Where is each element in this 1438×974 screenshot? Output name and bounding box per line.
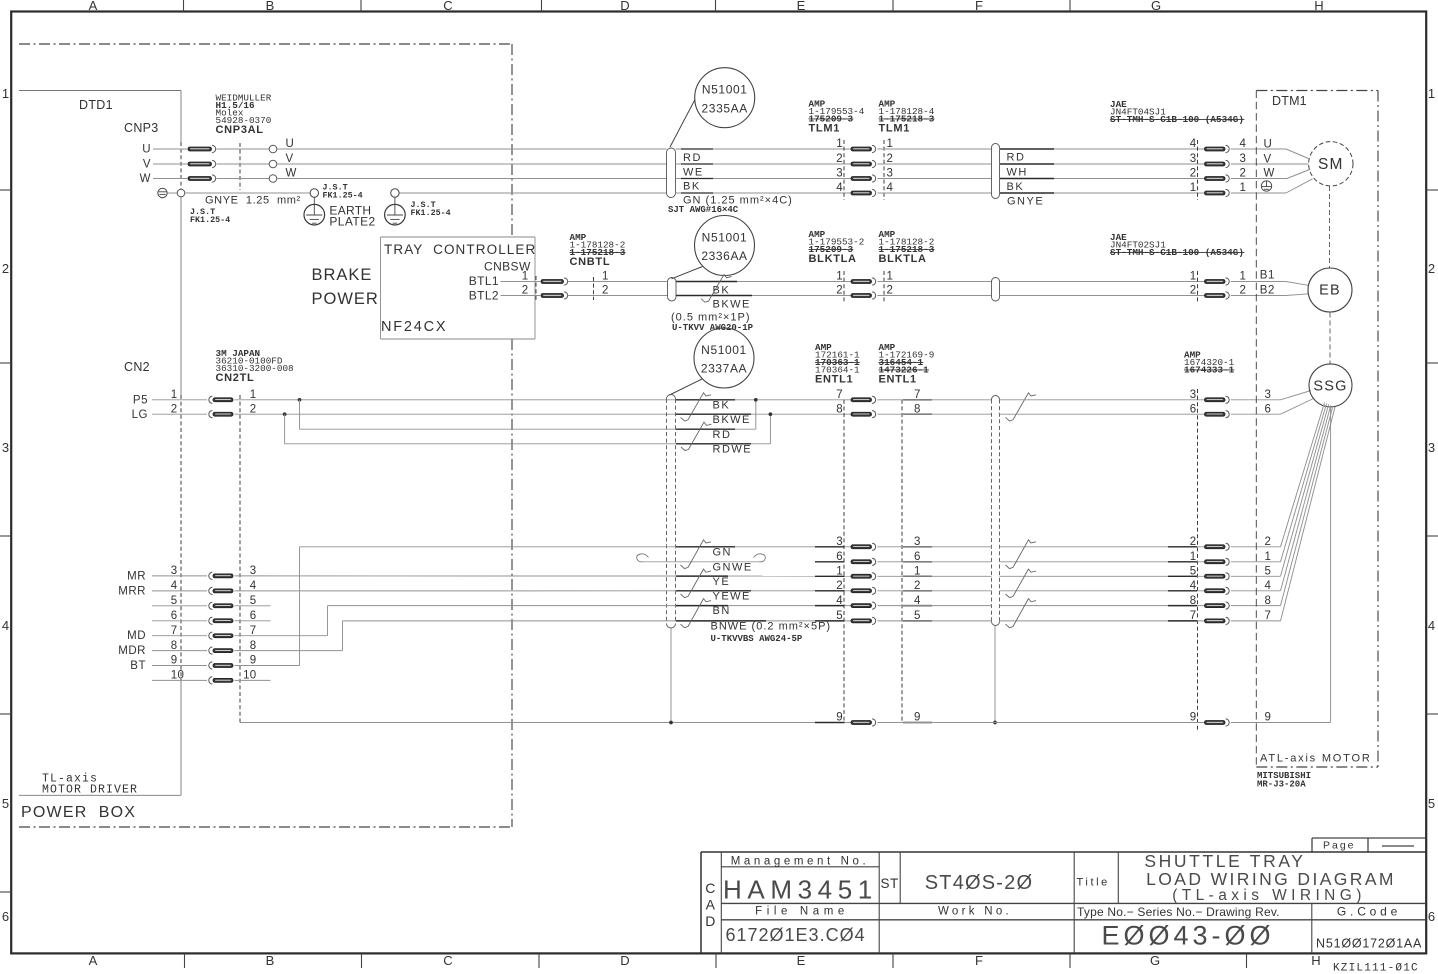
GNYE earth wire bbox=[177, 189, 666, 206]
wires to encoder connector (pins 3 6) bbox=[1000, 400, 1205, 414]
color change marker (encoder power pair, right) bbox=[1006, 393, 1037, 421]
brake terminal labels B1 B2 bbox=[1260, 270, 1275, 297]
cable sheath (encoder cable, right) bbox=[992, 396, 1000, 626]
svg-text:6: 6 bbox=[171, 610, 178, 622]
svg-text:ENTL1: ENTL1 bbox=[815, 374, 853, 386]
svg-text:4: 4 bbox=[836, 595, 843, 607]
svg-text:BK: BK bbox=[683, 181, 701, 193]
svg-text:1: 1 bbox=[1428, 86, 1435, 101]
wire P5 bbox=[133, 389, 851, 407]
POWER BOX label bbox=[21, 804, 136, 821]
color change markers (encoder power pairs) bbox=[681, 393, 712, 451]
TL-axis MOTOR DRIVER label bbox=[42, 773, 138, 797]
svg-text:BKWE: BKWE bbox=[713, 299, 751, 311]
electromagnetic brake EB bbox=[1308, 268, 1352, 312]
svg-text:G: G bbox=[1150, 953, 1160, 968]
wire MDR (to BNWE) bbox=[235, 621, 852, 651]
svg-text:GNYE 1.25 mm²: GNYE 1.25 mm² bbox=[205, 195, 301, 207]
svg-text:GNYE: GNYE bbox=[1007, 196, 1044, 208]
encoder signal fan into SSG bbox=[1231, 403, 1335, 621]
ST field bbox=[881, 876, 899, 891]
svg-text:B: B bbox=[266, 0, 275, 13]
connector JN4FT02SJ1 (brake) bbox=[1190, 271, 1246, 303]
svg-text:DTD1: DTD1 bbox=[79, 98, 113, 112]
svg-text:MR-J3-20A: MR-J3-20A bbox=[1257, 780, 1306, 790]
wires into encoder SSG (pins 3 6) bbox=[1231, 391, 1314, 415]
connector TLM1 mating pair bbox=[836, 138, 893, 200]
svg-text:F: F bbox=[975, 953, 983, 968]
connector CNBTL part-number stack bbox=[570, 232, 626, 268]
svg-text:9: 9 bbox=[1190, 712, 1197, 724]
cable GN label bbox=[668, 195, 793, 216]
DTM1 label bbox=[1272, 94, 1307, 108]
svg-text:2: 2 bbox=[1240, 285, 1247, 297]
svg-text:2: 2 bbox=[522, 285, 529, 297]
svg-text:(TL-axis WIRING): (TL-axis WIRING) bbox=[1172, 887, 1366, 904]
svg-text:2337AA: 2337AA bbox=[701, 362, 747, 376]
wire MR (to YE) bbox=[235, 575, 852, 577]
svg-text:MR: MR bbox=[127, 570, 146, 582]
svg-text:FK1.25-4: FK1.25-4 bbox=[411, 208, 451, 218]
svg-text:1: 1 bbox=[1190, 182, 1197, 194]
NF24CX label bbox=[381, 319, 447, 335]
color change markers (encoder signal pairs, left) bbox=[681, 540, 712, 628]
motor phase labels U V W and earth pin bbox=[1261, 139, 1275, 192]
svg-text:4: 4 bbox=[171, 580, 178, 592]
svg-text:ST4ØS-2Ø: ST4ØS-2Ø bbox=[925, 872, 1034, 894]
svg-text:C: C bbox=[443, 953, 452, 968]
svg-text:B2: B2 bbox=[1260, 285, 1275, 297]
svg-text:SJT AWG#16×4C: SJT AWG#16×4C bbox=[668, 205, 739, 215]
EARTH PLATE2 label bbox=[329, 204, 375, 229]
cable sheath (brake cable, right) bbox=[992, 278, 1000, 302]
svg-text:3: 3 bbox=[1428, 440, 1435, 455]
wires TLM1 to motor cable sheath bbox=[878, 149, 992, 193]
wire 1 (cable conductor, pin1) bbox=[676, 148, 852, 150]
svg-text:2: 2 bbox=[836, 580, 843, 592]
svg-text:BK: BK bbox=[1007, 181, 1025, 193]
svg-text:LOAD WIRING DIAGRAM: LOAD WIRING DIAGRAM bbox=[1146, 869, 1396, 889]
svg-text:6172Ø1E3.CØ4: 6172Ø1E3.CØ4 bbox=[726, 925, 866, 945]
svg-text:P5: P5 bbox=[133, 395, 148, 407]
svg-text:5: 5 bbox=[1265, 566, 1272, 578]
svg-text:TLM1: TLM1 bbox=[809, 123, 841, 135]
svg-text:10: 10 bbox=[243, 670, 256, 682]
svg-text:SSG: SSG bbox=[1313, 379, 1347, 395]
svg-text:2335AA: 2335AA bbox=[702, 101, 748, 115]
svg-text:C: C bbox=[443, 0, 452, 13]
Type No. Series No. Drawing Rev. field bbox=[1077, 905, 1280, 951]
svg-text:N51001: N51001 bbox=[701, 343, 747, 357]
earth plate 1 bbox=[304, 189, 325, 225]
svg-text:7: 7 bbox=[250, 625, 257, 637]
connector CN2TL pins 3-10 bbox=[152, 565, 257, 684]
svg-text:1: 1 bbox=[887, 271, 894, 283]
svg-text:File Name: File Name bbox=[755, 906, 849, 918]
svg-text:TRAY CONTROLLER: TRAY CONTROLLER bbox=[384, 242, 536, 257]
svg-text:RD: RD bbox=[683, 152, 702, 164]
svg-text:G.Code: G.Code bbox=[1337, 905, 1401, 919]
wire V (driver to cable) bbox=[153, 153, 667, 168]
svg-text:BT: BT bbox=[130, 660, 146, 672]
svg-text:4: 4 bbox=[250, 580, 257, 592]
svg-text:2: 2 bbox=[836, 153, 843, 165]
svg-text:5: 5 bbox=[836, 610, 843, 622]
svg-text:V: V bbox=[286, 153, 294, 165]
svg-text:Work No.: Work No. bbox=[938, 906, 1012, 918]
svg-text:BTL2: BTL2 bbox=[469, 289, 499, 303]
svg-text:G: G bbox=[1151, 0, 1161, 13]
svg-text:1: 1 bbox=[1265, 551, 1272, 563]
color change markers (encoder signal pairs, right) bbox=[1006, 540, 1037, 628]
junction P5 branch bbox=[298, 398, 301, 429]
connector CNP3AL part-number stack bbox=[216, 93, 272, 137]
svg-text:B1: B1 bbox=[1260, 270, 1275, 282]
svg-text:6: 6 bbox=[250, 610, 257, 622]
connector AMP 1674320-1 part-number stack bbox=[1184, 350, 1235, 376]
wire 9 (shield drain) bbox=[240, 407, 1331, 726]
encoder cable conductor labels BK BKWE RD RDWE bbox=[676, 400, 752, 456]
svg-text:(0.5 mm²×1P): (0.5 mm²×1P) bbox=[671, 312, 751, 324]
J.S.T FK1.25-4 crimp label (left) bbox=[190, 207, 230, 225]
cable sheath (encoder cable, left) bbox=[667, 395, 676, 629]
svg-text:4: 4 bbox=[1240, 138, 1247, 150]
svg-text:H: H bbox=[1311, 953, 1320, 968]
svg-text:1: 1 bbox=[250, 389, 257, 401]
connector TLM1 (plug) part-number stack bbox=[809, 99, 865, 135]
svg-text:7: 7 bbox=[1190, 610, 1197, 622]
svg-text:2: 2 bbox=[1240, 168, 1247, 180]
wire BK (brake cable) bbox=[676, 282, 851, 297]
cable marker N51001 2336AA bbox=[672, 216, 755, 279]
svg-text:POWER: POWER bbox=[312, 290, 379, 308]
wire pin10 stub bbox=[235, 679, 271, 681]
svg-text:4: 4 bbox=[1428, 618, 1435, 633]
svg-text:C: C bbox=[705, 880, 716, 896]
svg-text:5: 5 bbox=[250, 595, 257, 607]
wire GNWE (cut conductor with pigtails) bbox=[637, 554, 766, 562]
svg-text:ENTL1: ENTL1 bbox=[879, 374, 917, 386]
encoder connector pins 3 6 bbox=[1190, 389, 1271, 418]
svg-text:E: E bbox=[797, 953, 806, 968]
cable marker N51001 2335AA bbox=[670, 68, 755, 147]
svg-text:BRAKE: BRAKE bbox=[312, 266, 373, 284]
svg-text:FK1.25-4: FK1.25-4 bbox=[190, 215, 230, 225]
svg-text:1: 1 bbox=[2, 86, 9, 101]
title block frame bbox=[701, 852, 1426, 953]
svg-text:DTM1: DTM1 bbox=[1272, 94, 1307, 108]
wire BTL2 bbox=[469, 289, 668, 303]
svg-text:8: 8 bbox=[836, 403, 843, 415]
svg-text:3: 3 bbox=[1265, 389, 1272, 401]
wire pin6 stub bbox=[235, 620, 271, 622]
svg-text:4: 4 bbox=[1190, 138, 1197, 150]
svg-text:EB: EB bbox=[1319, 283, 1341, 299]
svg-text:8: 8 bbox=[171, 640, 178, 652]
svg-text:WE: WE bbox=[683, 167, 704, 179]
svg-text:2: 2 bbox=[602, 285, 609, 297]
encoder cable conductor labels GN GNWE YE YEWE BN BNWE bbox=[676, 547, 831, 645]
svg-text:4: 4 bbox=[1265, 580, 1272, 592]
svg-text:3: 3 bbox=[1190, 153, 1197, 165]
svg-text:8: 8 bbox=[250, 640, 257, 652]
color change marker (brake pair) bbox=[701, 275, 732, 303]
svg-text:2: 2 bbox=[1190, 285, 1197, 297]
junction LG branch bbox=[283, 413, 286, 444]
svg-text:Type No.− Series No.− Drawing: Type No.− Series No.− Drawing Rev. bbox=[1077, 905, 1280, 919]
cable sheath (motor cable, motor side) bbox=[992, 144, 1000, 199]
svg-text:1: 1 bbox=[1190, 551, 1197, 563]
wire MD (to BN) bbox=[235, 606, 852, 636]
driver signal labels MR MRR MD MDR BT bbox=[118, 570, 146, 672]
svg-text:9: 9 bbox=[1265, 712, 1272, 724]
connector CNP3 labels bbox=[124, 121, 159, 185]
wire GNYE (motor side) bbox=[1000, 193, 1205, 208]
svg-text:YE: YE bbox=[713, 576, 731, 588]
svg-text:1: 1 bbox=[836, 566, 843, 578]
svg-text:FK1.25-4: FK1.25-4 bbox=[323, 190, 363, 200]
servo motor SM bbox=[1309, 142, 1353, 186]
DTD1 label bbox=[79, 98, 113, 112]
svg-text:D: D bbox=[620, 0, 629, 13]
svg-text:SHUTTLE TRAY: SHUTTLE TRAY bbox=[1144, 851, 1305, 871]
svg-text:N51ØØ172Ø1AA: N51ØØ172Ø1AA bbox=[1316, 937, 1422, 951]
svg-text:BLKTLA: BLKTLA bbox=[879, 253, 927, 265]
svg-text:3: 3 bbox=[2, 440, 9, 455]
svg-text:4: 4 bbox=[887, 182, 894, 194]
svg-text:2: 2 bbox=[1428, 261, 1435, 276]
connector ENTL1 mating pair housing bbox=[844, 400, 902, 723]
svg-text:SM: SM bbox=[1318, 156, 1344, 173]
POWER BOX boundary (dash-dot) bbox=[19, 44, 512, 827]
svg-text:U: U bbox=[142, 144, 151, 156]
svg-text:MD: MD bbox=[127, 630, 146, 642]
svg-text:B: B bbox=[266, 953, 275, 968]
svg-text:GNWE: GNWE bbox=[713, 562, 753, 574]
svg-text:NF24CX: NF24CX bbox=[381, 319, 447, 335]
svg-text:4: 4 bbox=[836, 182, 843, 194]
svg-text:6: 6 bbox=[2, 909, 9, 924]
connector CNP3AL housing bbox=[181, 142, 240, 190]
connector BLKTLA (plug) part-number stack bbox=[809, 229, 865, 265]
encoder connector housing bbox=[1197, 389, 1199, 730]
svg-text:PLATE2: PLATE2 bbox=[329, 215, 375, 229]
svg-text:7: 7 bbox=[836, 389, 843, 401]
dashed link SM-EB-SSG bbox=[1329, 186, 1332, 364]
svg-text:2: 2 bbox=[250, 403, 257, 415]
svg-text:A: A bbox=[706, 897, 716, 913]
svg-text:BK: BK bbox=[713, 400, 731, 412]
connector JN4FT04SJ1 (motor) bbox=[1190, 138, 1247, 200]
svg-text:MRR: MRR bbox=[118, 585, 146, 597]
Title field bbox=[1077, 877, 1110, 889]
svg-text:5: 5 bbox=[1428, 796, 1435, 811]
wire pin5 stub bbox=[235, 605, 271, 607]
svg-text:6: 6 bbox=[1265, 403, 1272, 415]
wire BK (cable conductor) bbox=[676, 181, 852, 194]
Work No. field bbox=[938, 906, 1012, 918]
svg-text:1: 1 bbox=[1240, 182, 1247, 194]
svg-text:RD: RD bbox=[1007, 152, 1026, 164]
svg-text:MDR: MDR bbox=[118, 645, 146, 657]
svg-text:N51001: N51001 bbox=[702, 83, 748, 97]
MITSUBISHI MR-J3-20A label bbox=[1257, 771, 1311, 790]
svg-text:3: 3 bbox=[836, 168, 843, 180]
svg-text:10: 10 bbox=[171, 670, 184, 682]
svg-text:WH: WH bbox=[1007, 167, 1028, 179]
File Name field bbox=[726, 906, 866, 946]
wires encoder cable to encoder connector (signals) bbox=[1000, 547, 1205, 621]
wire BK (motor side) bbox=[1000, 179, 1205, 194]
svg-text:1: 1 bbox=[836, 138, 843, 150]
svg-text:1: 1 bbox=[1190, 271, 1197, 283]
connector JAE JN4FT02SJ1 part-number stack bbox=[1110, 232, 1244, 258]
wires to brake connector bbox=[1000, 282, 1205, 296]
svg-text:N51001: N51001 bbox=[702, 230, 748, 244]
svg-text:1: 1 bbox=[836, 271, 843, 283]
BRAKE POWER label bbox=[312, 266, 379, 308]
svg-text:CNP3: CNP3 bbox=[124, 121, 159, 135]
svg-text:U: U bbox=[286, 138, 295, 150]
cable marker N51001 2337AA bbox=[670, 328, 755, 395]
CNBSW label bbox=[484, 260, 531, 274]
connector CN2TL housing bbox=[181, 395, 240, 723]
svg-text:W: W bbox=[1264, 168, 1275, 180]
svg-text:H: H bbox=[1314, 0, 1323, 13]
svg-text:CN2TL: CN2TL bbox=[216, 372, 255, 384]
J.S.T FK1.25-4 crimp label (plate 2) bbox=[411, 200, 451, 218]
svg-text:9: 9 bbox=[250, 655, 257, 667]
connector ENTL1 (receptacle) part-number stack bbox=[879, 342, 935, 386]
connector ENTL1 (plug) part-number stack bbox=[815, 342, 860, 386]
Page box bbox=[1312, 838, 1426, 852]
TRAY CONTROLLER box bbox=[381, 237, 536, 339]
svg-text:RD: RD bbox=[713, 429, 732, 441]
wires ENTL1 to encoder cable sheath (signals) bbox=[878, 547, 992, 621]
connector BLKTLA mating pair bbox=[836, 271, 893, 303]
svg-text:4: 4 bbox=[2, 618, 9, 633]
svg-text:6: 6 bbox=[836, 551, 843, 563]
svg-text:5: 5 bbox=[1190, 566, 1197, 578]
svg-text:EØØ43-ØØ: EØØ43-ØØ bbox=[1101, 921, 1274, 951]
wire RD (motor side) bbox=[1000, 149, 1205, 164]
wires into servo motor SM bbox=[1231, 149, 1313, 193]
svg-text:2: 2 bbox=[887, 153, 894, 165]
svg-text:3: 3 bbox=[1190, 389, 1197, 401]
wire RD (encoder power branch) bbox=[300, 398, 758, 429]
encoder connector pins 2 1 5 4 8 7 bbox=[1168, 536, 1272, 625]
svg-text:YEWE: YEWE bbox=[713, 591, 751, 603]
svg-text:2: 2 bbox=[1190, 536, 1197, 548]
svg-text:ST: ST bbox=[881, 876, 899, 891]
svg-text:3: 3 bbox=[1240, 153, 1247, 165]
wire WH (motor side) bbox=[1000, 164, 1205, 179]
CAD label bbox=[705, 880, 716, 929]
svg-text:Management No.: Management No. bbox=[731, 856, 870, 868]
svg-text:U-TKVV AWG20-1P: U-TKVV AWG20-1P bbox=[672, 323, 754, 333]
Management No. field bbox=[723, 856, 878, 905]
connector CN2 label bbox=[124, 360, 150, 374]
wires ENTL1 to encoder cable sheath (pins 7 8) bbox=[878, 400, 992, 414]
svg-text:1: 1 bbox=[522, 271, 529, 283]
svg-text:BKWE: BKWE bbox=[713, 414, 751, 426]
svg-text:W: W bbox=[140, 173, 151, 185]
svg-text:BTL1: BTL1 bbox=[469, 274, 499, 288]
svg-text:2: 2 bbox=[171, 403, 178, 415]
wire RDWE (encoder power branch) bbox=[285, 413, 773, 444]
svg-text:E: E bbox=[797, 0, 806, 13]
svg-text:6: 6 bbox=[1190, 403, 1197, 415]
wire BTL1 bbox=[469, 274, 668, 288]
svg-text:CNP3AL: CNP3AL bbox=[216, 124, 264, 136]
svg-text:BNWE (0.2 mm²×5P): BNWE (0.2 mm²×5P) bbox=[711, 621, 832, 633]
G.Code field bbox=[1316, 905, 1422, 951]
svg-text:3: 3 bbox=[836, 536, 843, 548]
earth terminal symbol bbox=[158, 188, 177, 197]
svg-text:1: 1 bbox=[171, 389, 178, 401]
svg-text:GN: GN bbox=[713, 547, 733, 559]
connector CN2TL part-number stack bbox=[216, 348, 294, 384]
drawing format code KZIL111-01C bbox=[1333, 963, 1419, 974]
wire RD (cable conductor) bbox=[676, 152, 852, 164]
svg-text:7: 7 bbox=[1265, 610, 1272, 622]
svg-text:6: 6 bbox=[1428, 909, 1435, 924]
brake cable size label bbox=[671, 312, 754, 334]
svg-text:1: 1 bbox=[1240, 271, 1247, 283]
TL-axis motor driver box DTD1 bbox=[19, 91, 181, 796]
connector BLKTLA (receptacle) part-number stack bbox=[879, 229, 935, 265]
ATL-axis MOTOR label bbox=[1260, 753, 1372, 765]
svg-text:1: 1 bbox=[887, 138, 894, 150]
svg-text:2: 2 bbox=[2, 261, 9, 276]
svg-text:D: D bbox=[705, 913, 716, 929]
svg-text:V: V bbox=[143, 159, 151, 171]
drawing title bbox=[1144, 851, 1395, 904]
wire U (driver to cable) bbox=[153, 138, 667, 153]
svg-text:TLM1: TLM1 bbox=[879, 123, 911, 135]
wire LG bbox=[132, 403, 851, 420]
svg-text:8: 8 bbox=[1190, 595, 1197, 607]
encoder SSG bbox=[1309, 364, 1352, 407]
svg-text:HAM3451: HAM3451 bbox=[723, 875, 878, 905]
svg-text:2: 2 bbox=[1265, 536, 1272, 548]
svg-text:F: F bbox=[975, 0, 983, 13]
svg-text:2: 2 bbox=[1190, 168, 1197, 180]
wire BT (to GN) bbox=[235, 547, 852, 666]
svg-text:MOTOR DRIVER: MOTOR DRIVER bbox=[42, 784, 138, 797]
svg-text:1: 1 bbox=[602, 271, 609, 283]
earth plate 2 bbox=[385, 189, 406, 225]
svg-text:CN2: CN2 bbox=[124, 360, 150, 374]
svg-text:Title: Title bbox=[1077, 877, 1110, 889]
svg-text:BLKTLA: BLKTLA bbox=[809, 253, 857, 265]
svg-text:A: A bbox=[89, 0, 98, 13]
svg-text:U-TKVVBS AWG24-5P: U-TKVVBS AWG24-5P bbox=[711, 634, 803, 644]
svg-text:ATL-axis MOTOR: ATL-axis MOTOR bbox=[1260, 753, 1372, 765]
cable sheath (brake cable, left) bbox=[668, 278, 677, 302]
svg-text:4: 4 bbox=[1190, 580, 1197, 592]
J.S.T FK1.25-4 crimp label (plate 1) bbox=[323, 183, 363, 201]
svg-text:5: 5 bbox=[2, 796, 9, 811]
wires BLKTLA to brake cable sheath bbox=[878, 282, 992, 296]
TRAY CONTROLLER label bbox=[384, 242, 536, 257]
wire WE (cable conductor) bbox=[676, 167, 852, 179]
svg-text:2336AA: 2336AA bbox=[701, 249, 747, 263]
wire W (driver to cable) bbox=[153, 168, 667, 183]
wire BKWE (brake cable) bbox=[676, 296, 851, 311]
wire MRR (to YEWE) bbox=[235, 590, 852, 592]
svg-text:9: 9 bbox=[171, 655, 178, 667]
